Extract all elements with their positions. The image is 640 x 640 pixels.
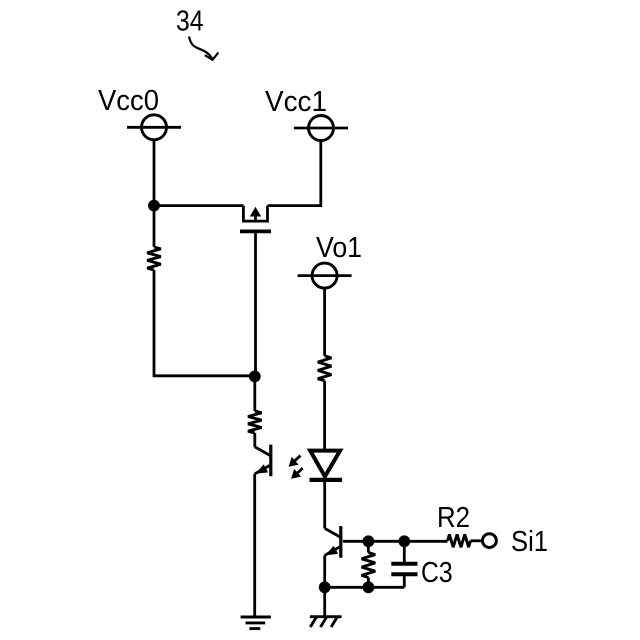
wire resistor R-c to LED anode <box>323 381 326 451</box>
svg-text:Vcc0: Vcc0 <box>98 85 159 117</box>
svg-text:Vo1: Vo1 <box>316 232 362 264</box>
resistor R-a (left, below Vcc0) <box>147 247 161 270</box>
junction dot Rpar/ground node <box>363 581 375 593</box>
MOSFET gate bar <box>240 229 271 233</box>
MOSFET U1 channel <box>243 206 267 222</box>
phototransistor Q1 <box>255 445 271 477</box>
junction dot base/C3 node <box>398 535 410 547</box>
wire MOSFET gate lead down <box>254 233 257 376</box>
junction dot base/Rpar node <box>363 535 375 547</box>
MOSFET substrate arrow <box>250 207 261 221</box>
wire Vcc0 down to resistor R-a <box>153 140 156 247</box>
transistor Q2 <box>325 526 341 558</box>
wire LED cathode to transistor Q2 collector <box>323 480 326 528</box>
resistor R-d (parallel, base-ground) <box>362 541 376 587</box>
wire gate node down to resistor R-b <box>253 376 256 411</box>
svg-text:Vcc1: Vcc1 <box>265 86 327 118</box>
emitter arrowhead <box>255 464 268 473</box>
light arrow 1 <box>289 456 301 467</box>
emitter diagonal <box>325 547 340 556</box>
terminal Vcc1 <box>294 116 348 141</box>
junction dot at Vcc0 branch <box>148 200 160 212</box>
wire Vo1 down to resistor R-c <box>323 288 326 356</box>
wire Q2 emitter down to ground <box>323 555 326 616</box>
wire resistor R-a down and across to gate node <box>154 270 255 376</box>
svg-text:Si1: Si1 <box>511 526 548 558</box>
collector diagonal <box>325 528 340 537</box>
wire junction to MOSFET source <box>154 204 243 207</box>
resistor R-c (below Vo1) <box>318 356 332 381</box>
base bar <box>339 526 342 558</box>
base bar <box>269 445 272 477</box>
wire phototransistor emitter down to ground <box>253 474 256 616</box>
ground (earth, left) <box>241 617 271 629</box>
ground (chassis, right) <box>310 617 342 627</box>
LED D1 cathode bar <box>310 478 343 482</box>
resistor R-b (above phototransistor) <box>248 411 262 433</box>
wire MOSFET drain to Vcc1 <box>268 141 321 206</box>
terminal Si1 <box>483 534 497 548</box>
svg-text:34: 34 <box>176 6 204 38</box>
leader arrow from 34 <box>189 37 218 60</box>
capacitor C3 <box>391 541 417 587</box>
wire bottom node <box>325 586 405 589</box>
junction dot gate node <box>249 371 261 383</box>
wire Q2 base to R2 <box>343 540 448 543</box>
resistor R2 (horizontal) <box>448 534 471 547</box>
LED D1 (triangle) <box>310 451 340 477</box>
emitter diagonal <box>255 465 270 474</box>
terminal Vcc0 <box>127 115 181 140</box>
junction dot emitter/ground node <box>319 581 331 593</box>
svg-text:C3: C3 <box>421 557 453 589</box>
svg-text:R2: R2 <box>437 502 470 534</box>
collector diagonal <box>255 447 270 456</box>
light arrow 2 <box>291 468 303 479</box>
emitter arrowhead <box>325 546 338 555</box>
terminal Vo1 <box>298 263 352 288</box>
wire resistor R-b to phototransistor collector <box>253 433 256 447</box>
wire R2 to Si1 terminal <box>471 539 483 542</box>
